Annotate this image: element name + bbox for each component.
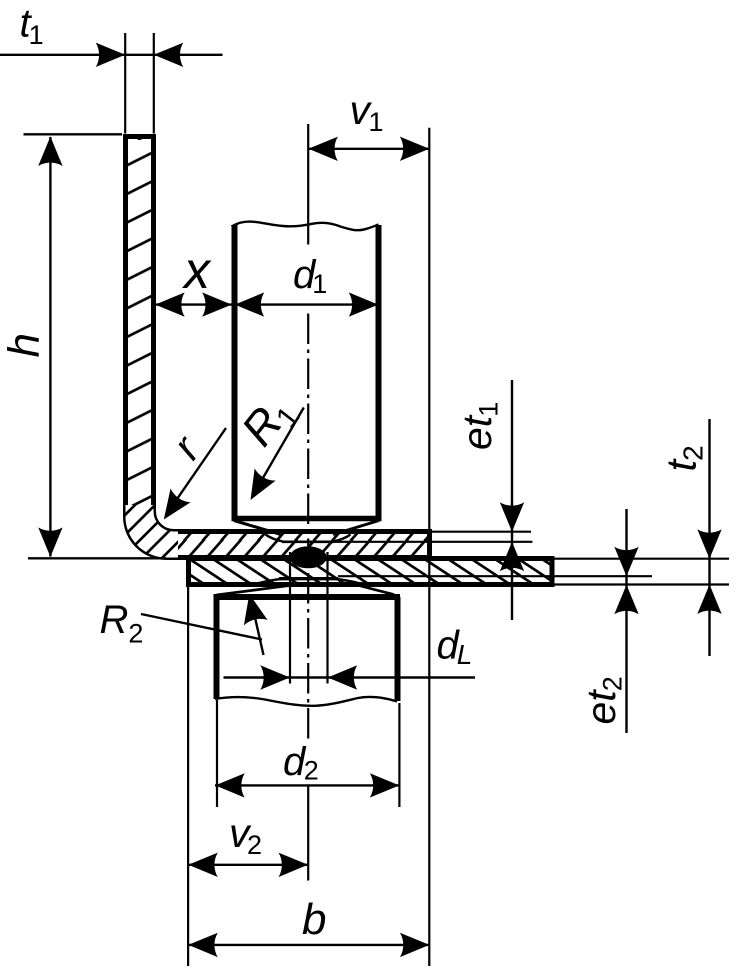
lower electrode break wave — [215, 697, 397, 706]
dimension t2 — [555, 419, 730, 656]
dimension d1 — [235, 292, 379, 316]
svg-text:h: h — [0, 333, 49, 357]
svg-text:v2: v2 — [229, 810, 262, 860]
upper electrode shoulder line — [232, 516, 382, 522]
svg-text:t1: t1 — [20, 2, 44, 50]
svg-text:d1: d1 — [293, 253, 327, 299]
dimension dL — [224, 552, 476, 690]
leader R2 — [141, 591, 268, 655]
lower indentation line — [279, 577, 338, 580]
svg-text:v1: v1 — [350, 87, 384, 137]
dimension b — [188, 587, 429, 966]
upper indentation line — [282, 540, 334, 543]
lower electrode left wall — [214, 597, 220, 699]
svg-text:R2: R2 — [100, 598, 144, 648]
dimension v2 — [188, 853, 308, 877]
leader r — [154, 428, 226, 526]
angle profile (vertical leg + horizontal flange, hatched) — [122, 137, 430, 561]
dimension et1 — [334, 380, 533, 620]
svg-text:r: r — [163, 426, 210, 468]
svg-text:d2: d2 — [283, 740, 319, 786]
dimension v1 — [308, 128, 429, 966]
dimension et2 — [338, 509, 652, 733]
weld nugget — [290, 546, 327, 568]
svg-text:x: x — [181, 242, 212, 300]
lower electrode dome (radius R2) — [217, 586, 290, 596]
svg-text:t2: t2 — [658, 445, 709, 471]
upper electrode tip dome (radius R1) — [234, 521, 281, 535]
dimension h — [24, 134, 167, 558]
centerline (axis) — [307, 124, 309, 245]
svg-text:dL: dL — [437, 624, 473, 671]
lower electrode face rim — [214, 594, 401, 600]
svg-text:R1: R1 — [231, 385, 306, 458]
dimension t1 — [0, 33, 223, 134]
svg-text:et1: et1 — [454, 402, 504, 450]
dimension d2 — [215, 700, 400, 807]
leader R1 — [240, 408, 304, 507]
svg-text:b: b — [302, 895, 326, 944]
upper electrode left wall — [232, 225, 238, 518]
upper electrode right wall — [376, 225, 382, 518]
svg-text:et2: et2 — [578, 676, 628, 724]
upper electrode break wave — [232, 222, 379, 231]
dimension x — [155, 292, 231, 316]
bottom sheet (hatched) — [189, 559, 553, 585]
lower electrode right wall — [395, 597, 401, 701]
